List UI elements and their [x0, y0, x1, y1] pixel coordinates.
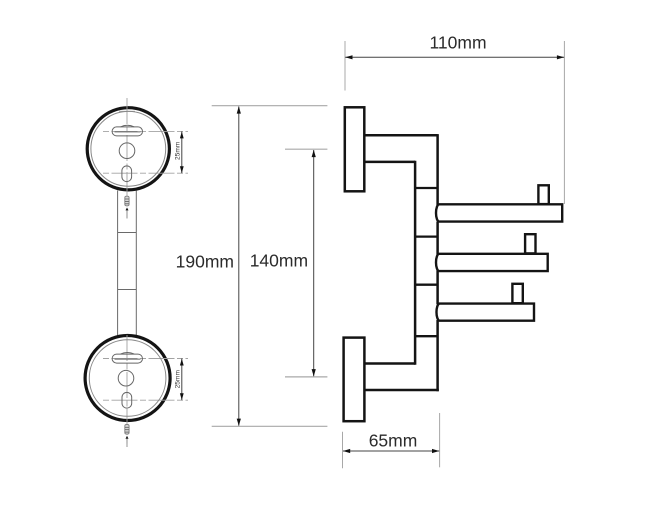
65mm extension line right	[439, 413, 441, 467]
hook arm 1 bar	[436, 204, 562, 221]
screw arrow (top)	[126, 208, 129, 219]
centerline vertical (bottom plate)	[126, 335, 128, 447]
wall plate bottom (side view)	[344, 338, 365, 422]
upper arm outline	[364, 135, 437, 162]
190mm extension line bottom	[212, 425, 328, 427]
bottom mounting plate outer circle	[85, 336, 170, 421]
140mm extension line top	[285, 148, 327, 150]
top plate lower oval slot	[122, 166, 132, 182]
swivel spine right edge segments	[436, 134, 439, 391]
25mm dimension (bottom plate)	[174, 359, 183, 401]
bottom plate lower oval slot	[122, 392, 132, 408]
110mm dimension line	[345, 33, 564, 60]
110mm extension line right	[563, 41, 565, 204]
hook arm 2 bar	[436, 254, 548, 271]
hook arm 3 peg	[512, 284, 522, 303]
centerline tick top plate	[119, 110, 135, 112]
screw (bottom)	[125, 425, 129, 435]
screw (top)	[125, 196, 129, 206]
svg-text:140mm: 140mm	[250, 251, 308, 271]
top keyhole slot	[112, 125, 142, 136]
lower arm outline	[364, 364, 438, 391]
connecting bar between plates	[118, 191, 137, 337]
25mm dimension (top plate)	[174, 131, 183, 173]
spine joint line 2	[415, 235, 438, 237]
bottom plate middle hole	[118, 370, 134, 386]
65mm extension line left	[342, 432, 344, 469]
top mounting plate outer circle	[87, 108, 169, 190]
bottom plate inner circle	[89, 340, 166, 417]
swivel spine left edge	[414, 161, 417, 365]
centerline horizontal through bottom oval	[103, 399, 188, 401]
screw arrow (bottom)	[126, 436, 129, 447]
110mm extension line left	[344, 41, 346, 91]
spine joint line 3	[415, 284, 438, 286]
190mm dimension line	[176, 106, 241, 426]
hook arm 1 peg	[538, 185, 548, 204]
top plate middle hole	[119, 143, 135, 159]
65mm dimension line	[343, 431, 439, 454]
hook arm 3 bar	[436, 304, 534, 321]
centerline horizontal through top slot	[103, 130, 188, 132]
140mm dimension line	[250, 150, 316, 377]
centerline horizontal through bottom slot	[103, 358, 188, 360]
centerline horizontal through top oval	[103, 172, 188, 174]
svg-text:190mm: 190mm	[176, 251, 234, 271]
wall plate top (side view)	[345, 107, 365, 191]
hook arm 2 peg	[525, 234, 535, 253]
svg-text:25mm: 25mm	[174, 370, 181, 389]
bottom keyhole slot	[112, 352, 142, 363]
spine joint line 1	[415, 187, 438, 189]
svg-text:110mm: 110mm	[429, 33, 486, 53]
190mm extension line top	[212, 105, 328, 107]
svg-text:65mm: 65mm	[369, 431, 418, 451]
140mm extension line bottom	[285, 376, 327, 378]
centerline vertical (top plate)	[126, 98, 128, 218]
svg-text:25mm: 25mm	[174, 141, 181, 160]
top plate inner circle	[91, 111, 166, 186]
spine joint line 4	[415, 335, 438, 337]
